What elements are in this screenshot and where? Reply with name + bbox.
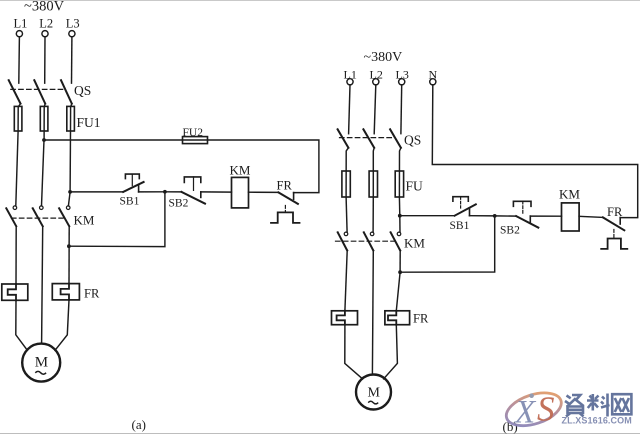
KM linkage dashed (b): [336, 240, 397, 242]
wire heater2 to motor (a): [55, 300, 69, 351]
FR heater2 conductor jog (a): [61, 284, 69, 300]
wire QS pole2 through fuse FU1-2 (a): [44, 104, 45, 140]
QS linkage dashed (b): [340, 137, 395, 139]
KM linkage dashed (a): [12, 217, 64, 219]
svg-text:KM: KM: [404, 236, 425, 251]
FR contact actuator dashes (b): [613, 230, 615, 239]
svg-text:QS: QS: [404, 133, 421, 148]
wire L3 to QS pole3 (b): [400, 85, 403, 134]
svg-text:FR: FR: [413, 312, 429, 326]
svg-text:M: M: [368, 386, 381, 401]
junction node L3 control tap (a): [68, 190, 72, 194]
wire KM pole3 to FR heater2 (a): [68, 226, 70, 283]
fuse FU1 pole3 body (a): [67, 106, 75, 131]
wire KM pole3 to self-hold node (b): [399, 251, 401, 273]
svg-text:X: X: [513, 395, 537, 431]
svg-text:~380V: ~380V: [364, 50, 403, 65]
watermark ellipse swoosh: [502, 387, 565, 432]
wire L3 tap to SB1 (a): [70, 191, 123, 193]
pushbutton SB2 cap (b): [513, 201, 531, 206]
svg-text:(a): (a): [132, 417, 146, 432]
pushbutton SB1 NC blade (a): [123, 182, 143, 192]
watermark char zi: [565, 395, 584, 407]
contactor KM pole3 contact circle (b): [397, 232, 401, 236]
wire L3 tap to KM pole3 (a): [68, 192, 70, 206]
fuse FU pole1 body (b): [342, 171, 350, 197]
pushbutton SB1 fixed contact tick (a): [138, 185, 140, 192]
pushbutton SB2 stem (a): [193, 177, 195, 191]
contactor KM pole1 blade (b): [338, 232, 348, 250]
wire QS pole1 through fuse FU-1 (b): [346, 148, 348, 232]
contactor KM pole2 blade (b): [364, 232, 374, 250]
pushbutton SB1 cap (b): [453, 197, 468, 202]
pushbutton SB1 stem (a): [131, 174, 133, 186]
fuse FU2 body (a): [183, 137, 208, 144]
svg-text:FU2: FU2: [183, 127, 204, 139]
wire heater1 to motor (a): [16, 300, 28, 350]
wire junction to SB2 (a): [165, 191, 182, 193]
wire heater2 to motor (b): [384, 325, 398, 379]
junction node self-hold tap (b): [398, 270, 402, 274]
pushbutton SB2 NO blade (b): [516, 216, 538, 228]
junction node SB1-SB2 (a): [163, 190, 167, 194]
svg-text:SB1: SB1: [450, 220, 470, 232]
QS linkage dashed (a): [11, 88, 65, 90]
contactor KM pole1 contact circle (b): [344, 232, 348, 236]
wire N down right and to FR (b): [432, 85, 637, 218]
svg-text:SB2: SB2: [500, 225, 520, 237]
pushbutton SB2 stem (b): [522, 201, 524, 213]
contactor KM pole2 contact circle (b): [370, 232, 374, 236]
FR contact fixed tick (b): [619, 218, 621, 224]
svg-text:M: M: [35, 355, 48, 371]
switch QS pole2 blade (a): [34, 80, 45, 103]
contactor KM pole2 blade (a): [33, 208, 43, 226]
junction node L3 control tap (b): [398, 214, 402, 218]
contactor coil KM (b): [562, 203, 580, 231]
svg-text:~380V: ~380V: [24, 0, 65, 15]
FR thermal actuator hump (a): [271, 212, 300, 223]
svg-text:SB1: SB1: [120, 196, 140, 208]
FR contact fixed tick (a): [293, 193, 295, 200]
self-hold wire junction down and left (a): [69, 192, 165, 247]
wire SB1 to junction (a): [139, 191, 165, 193]
svg-text:KM: KM: [559, 187, 580, 202]
watermark logo: [502, 387, 632, 432]
fuse FU pole2 body (b): [369, 171, 377, 197]
pushbutton SB2 NO blade (a): [182, 192, 206, 204]
svg-text:KM: KM: [230, 163, 251, 178]
switch QS pole1 blade (a): [9, 80, 21, 103]
junction node L2 control tap (a): [42, 138, 46, 142]
contactor KM pole3 contact circle (a): [66, 206, 70, 210]
fuse FU1 pole1 body (a): [14, 106, 22, 131]
thermal relay FR heater2 box (a): [52, 284, 79, 300]
terminal L2 (b): [373, 79, 379, 85]
pushbutton SB1 NC blade (b): [455, 204, 476, 215]
svg-text:KM: KM: [74, 213, 95, 228]
svg-text:ZL.XS1616.COM: ZL.XS1616.COM: [562, 416, 632, 426]
switch QS pole3 blade (b): [390, 129, 401, 148]
wire tap to KM pole3 (b): [399, 216, 401, 232]
thermal relay FR heater1 box (b): [332, 311, 358, 325]
contactor KM pole2 contact circle (a): [40, 206, 44, 210]
thermal relay FR heater1 box (a): [2, 284, 28, 300]
svg-text:QS: QS: [74, 83, 91, 98]
wire QS pole3 through fuse FU-3 (b): [399, 148, 401, 216]
wire heater1 to motor (b): [345, 325, 363, 379]
wire KM pole2 to motor (a): [42, 226, 43, 343]
contactor KM pole3 blade (a): [59, 208, 69, 226]
terminal L3 (a): [69, 31, 75, 37]
wire KM pole1 to FR heater1 (a): [15, 226, 17, 284]
pushbutton SB2 fixed contact tick (b): [529, 216, 531, 223]
svg-text:L1: L1: [344, 68, 357, 82]
svg-text:L2: L2: [39, 17, 53, 31]
thermal relay FR NC contact blade (b): [603, 217, 624, 230]
motor M body (a): [22, 344, 60, 382]
svg-text:FR: FR: [277, 179, 293, 193]
wire junction to SB2 (b): [495, 215, 517, 217]
watermark dot: [529, 393, 534, 398]
thermal relay FR NC contact blade (a): [278, 192, 298, 204]
wire L2 below tap to KM pole2 (a): [42, 140, 45, 206]
motor tilde (a): [35, 371, 46, 374]
wire KM coil to FR contact (a): [249, 191, 279, 193]
wire SB2 to KM coil (a): [201, 191, 232, 193]
pushbutton SB1 fixed contact tick (b): [469, 208, 471, 216]
wire KM pole2 to motor (b): [371, 251, 374, 375]
terminal N (b): [430, 79, 436, 85]
svg-text:N: N: [429, 68, 438, 82]
thermal relay FR heater2 box (b): [385, 311, 410, 325]
contactor KM pole1 blade (a): [6, 208, 16, 226]
wire QS pole3 through fuse FU1-3 (a): [70, 104, 72, 192]
self-hold wire junction down and left (b): [400, 216, 495, 272]
contactor coil KM (a): [232, 177, 249, 208]
svg-text:FU: FU: [406, 179, 424, 194]
fuse FU pole3 body (b): [395, 171, 403, 197]
wire SB2 to KM coil (b): [530, 215, 561, 217]
pushbutton SB1 cap (a): [125, 174, 139, 179]
wire L3 to QS pole3 (a): [71, 37, 73, 83]
svg-text:SB2: SB2: [169, 198, 189, 210]
contactor KM pole3 blade (b): [391, 232, 401, 250]
switch QS pole3 blade (a): [61, 80, 72, 103]
wire KM pole1 to FR heater1 (b): [345, 251, 347, 311]
wire node to FR heater2 (b): [396, 272, 400, 311]
wire L1 to QS pole1 (b): [349, 85, 350, 134]
watermark char liao: [587, 394, 599, 411]
fuse FU1 pole2 body (a): [40, 106, 48, 131]
pushbutton SB2 fixed contact tick (a): [200, 192, 202, 198]
svg-text:L3: L3: [66, 17, 80, 31]
switch QS pole1 blade (b): [338, 129, 349, 148]
wire L1 to QS pole1 (a): [18, 37, 21, 83]
terminal L1 (a): [16, 31, 22, 37]
contactor KM pole1 contact circle (a): [13, 206, 17, 210]
svg-text:L2: L2: [370, 68, 383, 82]
svg-text:FR: FR: [607, 205, 623, 219]
wire L2 to QS pole2 (b): [374, 85, 376, 134]
terminal L2 (a): [42, 31, 48, 37]
svg-text:L1: L1: [14, 17, 28, 31]
watermark char wang: [612, 394, 631, 414]
motor tilde (b): [368, 401, 378, 404]
switch QS pole2 blade (b): [363, 129, 374, 148]
svg-text:FR: FR: [84, 287, 100, 301]
terminal L3 (b): [399, 79, 405, 85]
wire QS pole1 through fuse FU1-1 (a): [16, 104, 21, 206]
junction node SB1-SB2 (b): [493, 214, 497, 218]
svg-text:L3: L3: [396, 68, 409, 82]
FR contact actuator dashes (a): [284, 206, 286, 213]
svg-text:FU1: FU1: [77, 115, 101, 130]
junction node self-hold tap L3 (a): [67, 244, 71, 248]
motor M body (b): [356, 375, 391, 410]
wire tap to SB1 (b): [400, 215, 455, 217]
svg-text:S: S: [537, 390, 555, 429]
border top edge: [0, 0, 640, 2]
control wire tap to FU2 to corner (a): [44, 140, 319, 193]
FR heater2 conductor jog (b): [388, 311, 396, 325]
wire L2 to QS pole2 (a): [44, 37, 46, 83]
border bottom edge: [0, 433, 640, 434]
wire KM coil to FR contact (b): [579, 216, 603, 217]
wire QS pole2 through fuse FU-2 (b): [373, 148, 374, 232]
terminal L1 (b): [347, 79, 353, 85]
pushbutton SB2 cap (a): [184, 177, 201, 183]
wire SB1 to junction (b): [470, 215, 495, 217]
FR heater1 conductor jog (a): [8, 284, 16, 300]
pushbutton SB1 stem (b): [460, 197, 462, 208]
FR heater1 conductor jog (b): [337, 311, 345, 325]
FR thermal actuator hump (b): [601, 239, 627, 249]
